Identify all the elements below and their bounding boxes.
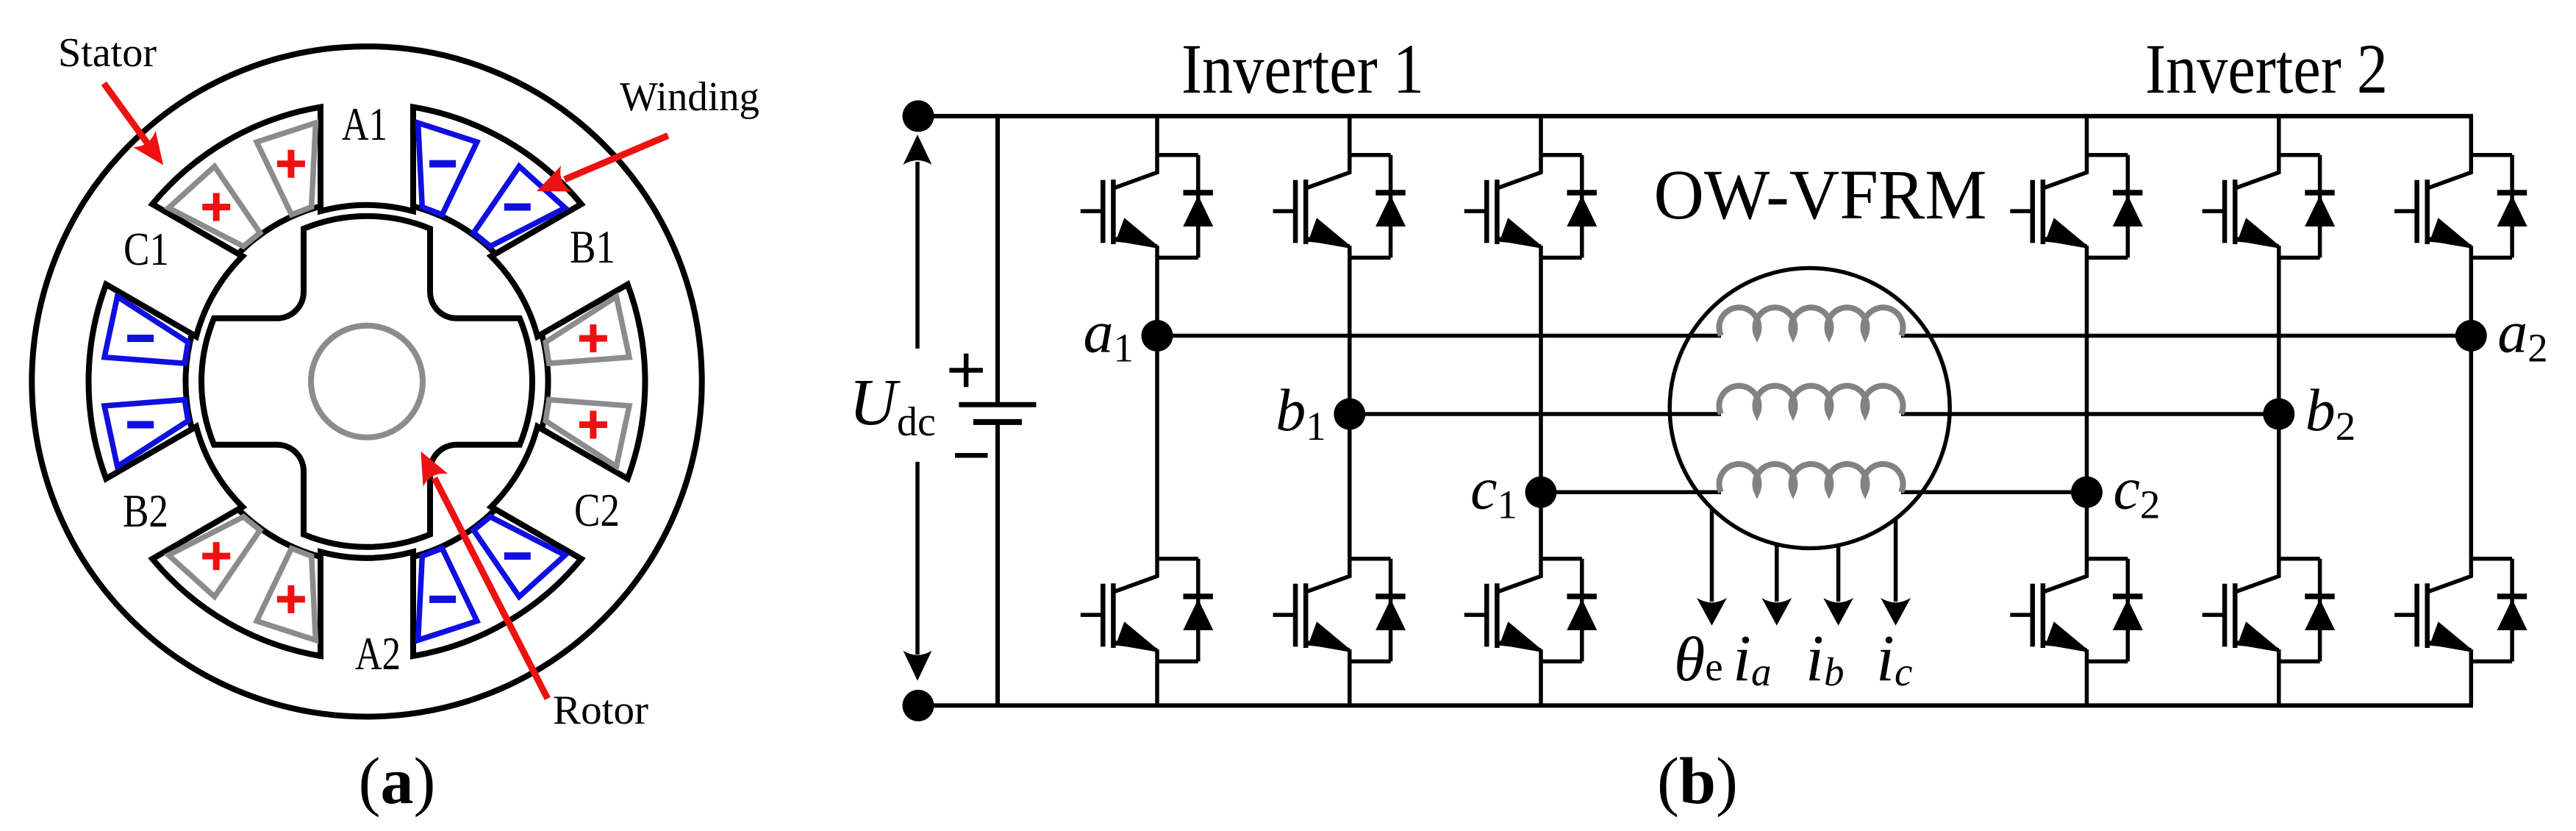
inverter 1 leg A upper IGBT Q1H (1081, 155, 1214, 258)
inverter 1 leg C upper IGBT Q3H (1464, 155, 1598, 258)
node b1 (1334, 399, 1365, 430)
winding coil side, tooth A1 ccw (+) (257, 123, 315, 215)
svg-text:b2: b2 (2305, 377, 2356, 449)
svg-text:c2: c2 (2114, 454, 2161, 527)
svg-text:Stator: Stator (58, 30, 157, 76)
DC source battery wires (995, 116, 1000, 706)
phase a wire (1157, 334, 2471, 338)
inverter 2 leg C vertical wire (2085, 116, 2089, 706)
polarity minus sign (127, 335, 154, 342)
svg-text:c1: c1 (1470, 454, 1517, 527)
svg-text:OW-VFRM: OW-VFRM (1654, 155, 1987, 234)
winding coil side, tooth C1 ccw (-) (104, 296, 188, 363)
node c2 (2071, 477, 2103, 508)
DC bus negative terminal node (903, 690, 934, 721)
inverter 1 leg B upper IGBT Q2H (1273, 155, 1406, 258)
winding coil side, tooth A1 cw (-) (418, 123, 477, 215)
output arrow i_c (1894, 518, 1898, 602)
polarity minus sign (504, 204, 531, 211)
inverter 2 leg A vertical wire (2469, 116, 2474, 706)
node a1 (1142, 320, 1173, 352)
node b2 (2263, 399, 2294, 430)
polarity plus sign (579, 411, 607, 439)
svg-text:a2: a2 (2497, 299, 2548, 371)
stator slot C1-A1 window (152, 107, 321, 254)
rotor (4-pole salient) (201, 216, 532, 547)
battery positive plate (959, 402, 1036, 407)
inverter 1 leg A lower IGBT Q1L (1081, 559, 1214, 662)
phase b wire (1350, 412, 2279, 416)
stator tooth B1 face (491, 254, 542, 337)
polarity minus sign (127, 421, 154, 429)
svg-text:B1: B1 (570, 221, 615, 273)
polarity minus sign (429, 160, 456, 168)
stator slot B2-C1 window (88, 285, 192, 479)
stator outer circle (32, 46, 701, 716)
rotor shaft (311, 326, 423, 438)
inverter 2 leg C upper IGBT Q4H (2010, 155, 2143, 258)
svg-text:ic: ic (1876, 622, 1912, 695)
polarity minus sign (504, 552, 531, 560)
winding coil side, tooth C1 cw (+) (168, 166, 260, 246)
DC bus bottom rail (918, 703, 2473, 707)
node c1 (1525, 477, 1557, 508)
DC bus positive terminal node (903, 100, 934, 132)
battery minus sign (955, 453, 988, 458)
stator slot A1-B1 window (413, 107, 582, 254)
stator tooth C1 face (192, 254, 243, 337)
output arrow i_b (1836, 546, 1841, 602)
svg-text:ia: ia (1733, 622, 1772, 695)
inverter 1 leg A vertical wire (1155, 116, 1159, 706)
inverter 1 leg C lower IGBT Q3L (1464, 559, 1598, 662)
svg-text:A2: A2 (355, 628, 401, 680)
svg-text:C1: C1 (124, 224, 169, 275)
machine phase b winding coil (1719, 386, 1903, 414)
stator tooth A2 face (321, 552, 413, 557)
polarity plus sign (579, 324, 607, 352)
inverter 2 leg A lower IGBT Q6L (2394, 559, 2527, 662)
inverter 2 leg A upper IGBT Q6H (2394, 155, 2527, 258)
battery negative plate (973, 419, 1022, 425)
winding coil side, tooth C2 cw (-) (473, 517, 565, 597)
svg-text:Udc: Udc (849, 366, 936, 445)
polarity plus sign (202, 542, 230, 570)
battery plus sign (949, 354, 983, 388)
winding coil side, tooth B2 ccw (+) (168, 517, 260, 597)
inverter 1 leg B lower IGBT Q2L (1273, 559, 1406, 662)
arrow Rotor (434, 478, 548, 699)
svg-text:(a): (a) (359, 745, 436, 818)
svg-text:Inverter 1: Inverter 1 (1181, 29, 1424, 108)
output arrow i_a (1775, 544, 1779, 602)
svg-text:(b): (b) (1657, 745, 1738, 818)
inverter 2 leg B lower IGBT Q5L (2203, 559, 2336, 662)
inverter 2 leg B vertical wire (2277, 116, 2281, 706)
node a2 (2455, 320, 2487, 352)
winding coil side, tooth B1 ccw (-) (473, 166, 565, 246)
inverter 1 leg B vertical wire (1348, 116, 1352, 706)
DC bus top rail (918, 114, 2473, 118)
stator slot A2-B2 window (152, 510, 321, 657)
polarity plus sign (277, 150, 305, 178)
svg-text:Rotor: Rotor (553, 688, 648, 733)
svg-text:C2: C2 (574, 485, 620, 536)
svg-text:Winding: Winding (620, 74, 759, 120)
inverter 2 leg B upper IGBT Q5H (2203, 155, 2336, 258)
winding coil side, tooth A2 cw (+) (257, 549, 315, 641)
stator tooth C2 face (491, 427, 542, 510)
winding coil side, tooth C2 ccw (+) (545, 400, 629, 467)
winding coil side, tooth B1 cw (+) (545, 296, 629, 363)
OW-VFRM machine circle (1670, 268, 1950, 549)
Udc measurement arrow (double headed) (915, 162, 920, 349)
stator slot C2-A2 window (413, 510, 582, 657)
svg-text:ib: ib (1806, 622, 1845, 695)
svg-text:Inverter 2: Inverter 2 (2145, 29, 2388, 108)
polarity plus sign (277, 585, 305, 613)
stator tooth B2 face (192, 427, 243, 510)
arrow Winding (565, 135, 668, 179)
winding coil side, tooth B2 cw (-) (104, 400, 188, 467)
svg-text:a1: a1 (1084, 299, 1134, 371)
inverter 1 leg C vertical wire (1539, 116, 1543, 706)
arrow Stator (104, 83, 151, 148)
polarity minus sign (429, 596, 456, 603)
output arrow theta_e (1710, 508, 1714, 602)
machine phase a winding coil (1719, 307, 1903, 335)
svg-text:A1: A1 (342, 99, 387, 150)
svg-text:B2: B2 (123, 485, 168, 537)
inverter 2 leg C lower IGBT Q4L (2010, 559, 2143, 662)
svg-text:b1: b1 (1276, 377, 1326, 449)
winding coil side, tooth A2 ccw (-) (418, 549, 477, 641)
stator slot B1-C2 window (542, 285, 645, 479)
stator tooth A1 face (321, 205, 413, 211)
svg-text:θe: θe (1674, 624, 1723, 694)
machine phase c winding coil (1719, 464, 1903, 492)
phase c wire (1541, 491, 2087, 495)
polarity plus sign (202, 193, 230, 221)
